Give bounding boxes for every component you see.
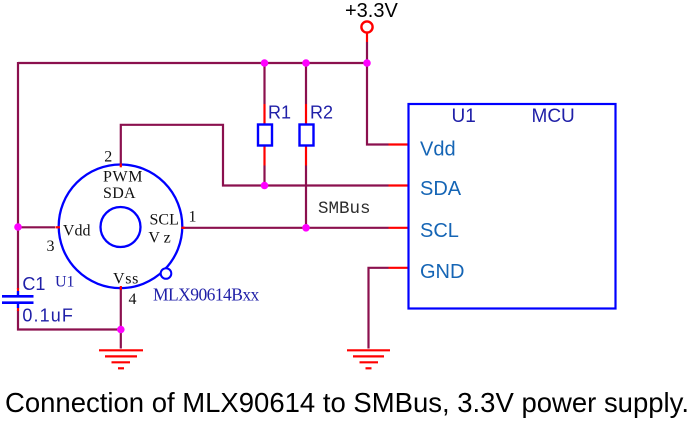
junction dot rail/+3.3V drop xyxy=(363,59,371,67)
resistor R2 top red lead xyxy=(305,104,307,125)
MCU box U1 xyxy=(409,104,616,309)
wire: MCU GND pin to ground xyxy=(369,268,389,349)
svg-text:MLX90614Bxx: MLX90614Bxx xyxy=(153,285,260,305)
svg-text:1: 1 xyxy=(189,209,197,226)
wire: +3.3V drop red segment below terminal xyxy=(366,33,368,43)
MCU SDA pin red stub xyxy=(389,184,410,186)
svg-text:Connection of MLX90614 to SMBu: Connection of MLX90614 to SMBus, 3.3V po… xyxy=(5,387,689,418)
svg-text:SDA: SDA xyxy=(103,185,136,202)
MCU Vdd pin red stub xyxy=(389,143,410,145)
sensor inner circle xyxy=(101,207,141,247)
MCU GND pin red stub xyxy=(389,267,410,269)
svg-text:2: 2 xyxy=(104,149,112,166)
svg-text:SCL: SCL xyxy=(150,212,179,229)
wire: R1 bottom to SDA xyxy=(263,166,265,186)
wire: R2 branch from rail xyxy=(305,63,307,104)
sensor index mark small circle xyxy=(161,268,172,279)
junction dot rail/R1 xyxy=(261,59,269,67)
svg-text:MCU: MCU xyxy=(532,106,575,127)
junction dot R2/SCL xyxy=(302,224,310,232)
svg-text:C1: C1 xyxy=(22,274,45,294)
svg-text:Vss: Vss xyxy=(113,271,139,288)
capacitor C1 top red tick xyxy=(17,288,19,291)
wire: sensor pin2 up, over, down to SDA line xyxy=(121,125,389,186)
wire: top +3.3V rail horizontal xyxy=(18,62,367,64)
svg-text:R1: R1 xyxy=(268,103,291,123)
resistor R1 body xyxy=(258,125,272,146)
capacitor C1 bottom plate xyxy=(2,301,34,304)
wire: SCL line sensor pin1 to MCU xyxy=(182,227,389,229)
svg-text:3: 3 xyxy=(47,238,55,255)
resistor R1 bottom red lead xyxy=(263,146,265,166)
svg-text:4: 4 xyxy=(129,291,137,308)
capacitor C1 bottom red tick xyxy=(17,308,19,311)
ground (right, MCU GND) xyxy=(347,350,390,368)
junction dot Vss/bottom wire xyxy=(117,326,125,334)
svg-text:PWM: PWM xyxy=(103,169,143,186)
wire: Vdd tap to sensor pin 3 xyxy=(18,226,55,228)
wire: sensor pin4 Vss down to ground xyxy=(120,289,122,349)
wire: C1 bottom to bottom-left horizontal xyxy=(18,310,121,330)
svg-text:SMBus: SMBus xyxy=(318,199,371,219)
svg-text:0.1uF: 0.1uF xyxy=(22,306,74,326)
svg-text:U1: U1 xyxy=(452,106,476,127)
svg-text:V z: V z xyxy=(148,230,170,247)
svg-text:SCL: SCL xyxy=(420,220,459,242)
svg-text:SDA: SDA xyxy=(420,178,462,200)
junction dot left rail/Vdd tap xyxy=(14,223,22,231)
wire: R2 bottom to SCL line xyxy=(305,166,307,228)
MCU SCL pin red stub xyxy=(389,227,410,229)
wire: R1 branch from rail to SDA line xyxy=(263,63,265,104)
power terminal +3.3V circle xyxy=(361,21,372,32)
svg-text:Vdd: Vdd xyxy=(63,223,91,240)
ground (left, Vss) xyxy=(99,350,143,368)
pin 3 red tick xyxy=(56,226,61,228)
resistor R2 body xyxy=(300,125,314,146)
capacitor C1 bottom lead blue xyxy=(17,304,19,308)
resistor R2 bottom red lead xyxy=(305,146,307,166)
wire: +3.3V drop maroon to rail xyxy=(367,42,389,145)
svg-text:R2: R2 xyxy=(310,103,333,123)
junction dot rail/R2 xyxy=(302,59,310,67)
resistor R1 top red lead xyxy=(263,104,265,125)
junction dot R1/SDA xyxy=(261,182,269,190)
capacitor C1 top plate xyxy=(2,295,34,298)
svg-text:Vdd: Vdd xyxy=(420,139,456,161)
capacitor C1 top lead blue xyxy=(17,291,19,295)
wire: left vertical rail (Vdd to C1 top) xyxy=(17,62,19,289)
sensor MLX90614 outer circle xyxy=(59,165,183,289)
pin 2 red tick xyxy=(120,164,122,168)
svg-text:U1: U1 xyxy=(55,274,75,291)
pin 4 red tick xyxy=(120,286,122,290)
svg-text:GND: GND xyxy=(420,261,464,283)
pin 1 red tick xyxy=(181,227,185,229)
svg-text:+3.3V: +3.3V xyxy=(345,0,398,22)
